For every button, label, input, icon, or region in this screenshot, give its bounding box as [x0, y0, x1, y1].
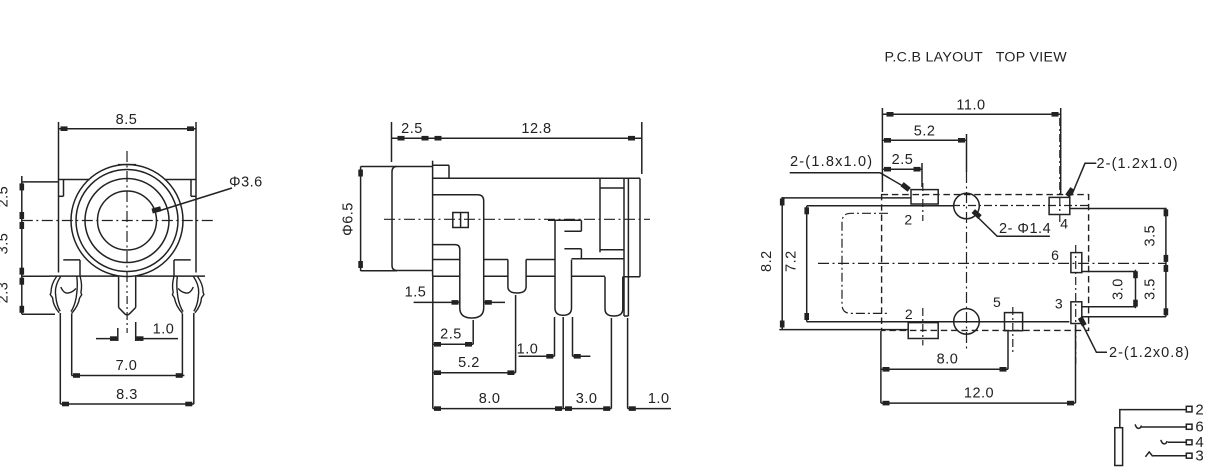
svg-text:2-(1.8x1.0): 2-(1.8x1.0): [790, 154, 873, 170]
dim 3.0 line: [563, 408, 611, 410]
front body left pocket: [63, 259, 80, 261]
pcb dim 2.5 line: [882, 168, 922, 170]
circle top tick: [118, 164, 136, 166]
pcb pin6/3 column centerline: [1075, 245, 1077, 364]
front body top-left notch: [63, 180, 65, 197]
left chain blobs: [20, 183, 25, 190]
pcb right dim ext bottom: [1082, 316, 1166, 318]
svg-text:12.8: 12.8: [521, 121, 551, 137]
svg-text:3: 3: [1195, 448, 1204, 465]
hole circle (dia 3.6): [98, 191, 157, 250]
svg-text:2.5: 2.5: [401, 121, 423, 137]
pin3 switch contact: [554, 220, 556, 308]
base bottom edge segments: [433, 275, 460, 277]
pcb pin2 column centerline: [922, 183, 924, 221]
pcb pad pin2 bottom (1.8x1.0): [908, 323, 938, 339]
dim 1.5 lines: [414, 301, 460, 303]
schematic terminal 6: [1186, 424, 1192, 429]
svg-text:3.5: 3.5: [0, 233, 12, 255]
body right edge (side): [639, 178, 641, 276]
svg-text:4: 4: [1060, 215, 1068, 231]
face circle: [85, 179, 169, 263]
left leg wires: [59, 313, 61, 404]
front body bottom edge: [49, 275, 118, 277]
dim 1.0 pin3 lines: [519, 355, 555, 357]
svg-text:3.5: 3.5: [1143, 278, 1159, 300]
schematic terminal 4: [1186, 440, 1192, 445]
front horizontal centerline: [22, 220, 214, 222]
left chain extension y=314.3: [22, 313, 55, 315]
pcb dashed outline rect: [882, 195, 1089, 331]
base top line segments: [433, 259, 460, 261]
svg-text:1.0: 1.0: [153, 322, 175, 338]
pin4: [604, 277, 606, 309]
schematic terminal 2: [1186, 406, 1192, 412]
svg-text:3: 3: [1055, 295, 1063, 311]
pcb dim 3.0 line: [1135, 270, 1137, 309]
label dia3.6 leader: [157, 188, 232, 212]
pcb dim 2.5 ext: [921, 163, 923, 187]
pcb pad pin3 (1.2x0.8): [1071, 302, 1082, 324]
svg-text:Φ3.6: Φ3.6: [229, 175, 263, 191]
dim 8.0 line (side): [433, 408, 563, 410]
svg-text:2.3: 2.3: [0, 282, 12, 304]
left snap leg fork: [50, 277, 59, 313]
schematic terminal 3: [1186, 453, 1192, 458]
dim 1.0 (front) line: [96, 338, 118, 340]
front view: jack front face: [49, 176, 205, 276]
dim 8.5 extension lines: [58, 122, 60, 176]
svg-text:8.2: 8.2: [759, 250, 775, 272]
dim 2.5 / 12.8 extensions: [391, 122, 393, 162]
pcb dim 8.2 ext lines: [782, 197, 911, 199]
pcb right dim 3.5/3.5 line: [1165, 208, 1167, 317]
dim 5.2 ext: [515, 295, 517, 373]
svg-text:8.0: 8.0: [479, 391, 501, 407]
leader 2-(1.8x1.0): [880, 173, 908, 189]
pcb dim 5.2 ext: [966, 134, 968, 172]
left chain dim line: [21, 176, 23, 314]
svg-text:2: 2: [905, 306, 913, 322]
pcb pad pin4 (1.2x1.0): [1049, 197, 1070, 214]
bottom dim extensions (side): [432, 276, 434, 408]
terminal washer detail: [453, 213, 469, 228]
dim dia6.5 line: [360, 167, 362, 272]
dim 1.0 (front) stubs: [117, 328, 119, 341]
dim 8.5 line: [59, 128, 197, 130]
dim 2.5b ext: [472, 320, 474, 344]
svg-text:5.2: 5.2: [914, 124, 936, 140]
pcb right dim ext top: [1070, 208, 1166, 210]
pcb dim 11.0 ext: [881, 108, 883, 192]
side centerline: [384, 218, 650, 220]
barrel inner rim circle: [76, 170, 178, 272]
pin2 stub: [507, 260, 509, 287]
svg-text:5.2: 5.2: [458, 355, 480, 371]
pcb pad pin2 top (1.8x1.0): [911, 190, 938, 204]
dim 7.0 line: [71, 375, 184, 377]
pcb dim 7.2 ext lines: [807, 205, 954, 207]
svg-text:1.0: 1.0: [648, 391, 670, 407]
top tab: [433, 164, 449, 166]
leader 2-dia1.4: [977, 217, 1050, 237]
svg-text:1.0: 1.0: [517, 341, 539, 357]
schematic wire 6: [1141, 426, 1186, 428]
internal shelf above pin1: [433, 245, 460, 250]
svg-text:3.0: 3.0: [1111, 278, 1127, 300]
body top edge (side): [433, 177, 640, 179]
schematic wire 4: [1168, 441, 1187, 443]
right slot horizontals: [600, 187, 624, 189]
schematic wire 3: [1153, 455, 1186, 457]
left chain extension y=276.2: [22, 275, 49, 277]
svg-text:12.0: 12.0: [964, 386, 994, 402]
center pin front: [118, 276, 120, 307]
svg-text:2.5: 2.5: [440, 327, 462, 343]
pin5 flat switch pin: [623, 179, 625, 316]
svg-text:2.5: 2.5: [892, 152, 914, 168]
pcb dim 11.0 line: [882, 113, 1060, 115]
leader 2-(1.8x1.0) underline: [790, 172, 880, 174]
svg-text:7.0: 7.0: [116, 358, 138, 374]
front vertical centerline: [126, 151, 128, 293]
pcb pin4 centerlines: [1059, 118, 1061, 223]
dim 1.0 right line: [628, 408, 671, 410]
svg-text:P.C.B LAYOUT TOP VIEW: P.C.B LAYOUT TOP VIEW: [885, 49, 1068, 65]
svg-text:3.5: 3.5: [1143, 225, 1159, 247]
pcb dim 8.2 line: [781, 197, 783, 329]
svg-text:2-(1.2x1.0): 2-(1.2x1.0): [1097, 156, 1179, 172]
svg-text:7.2: 7.2: [784, 250, 800, 272]
pcb hole column centerline: [966, 172, 968, 352]
schematic contact squiggle 3: [1145, 452, 1152, 457]
pcb pin5 column centerline: [1012, 307, 1014, 352]
svg-text:1.5: 1.5: [405, 285, 427, 301]
svg-text:8.5: 8.5: [116, 112, 138, 128]
dim 2.5/12.8 line: [392, 137, 642, 139]
pcb pad pin6 (1.2x0.8): [1071, 253, 1082, 273]
dim dia6.5 extensions: [361, 166, 397, 168]
left chain extension y=181.9: [22, 181, 59, 183]
schematic tip wire to terminal 2: [1120, 410, 1187, 428]
svg-text:2-(1.2x0.8): 2-(1.2x0.8): [1109, 345, 1190, 361]
svg-text:2- Φ1.4: 2- Φ1.4: [999, 221, 1051, 237]
svg-text:Φ6.5: Φ6.5: [340, 202, 356, 236]
pcb dim 7.2 line: [806, 206, 808, 322]
pcb body outline dash-dot rounded: [842, 213, 888, 313]
center pin centerline: [126, 296, 128, 333]
leader 2-(1.2x0.8): [1082, 324, 1107, 353]
flange (dia 6.5 bushing): [392, 167, 433, 271]
leader 2-(1.2x1.0): [1072, 163, 1097, 195]
pcb hole bottom (dia 1.4): [954, 309, 980, 335]
dim 8.3 line: [60, 403, 194, 405]
pcb dim 5.2 line: [882, 139, 966, 141]
svg-text:2: 2: [904, 212, 912, 228]
pcb pad pin5 (1.2x1.0): [1005, 313, 1023, 331]
pcb dim 3.0 ext: [1082, 271, 1136, 273]
schematic contact squiggle 4: [1161, 440, 1167, 444]
right slot verticals: [599, 179, 601, 252]
svg-text:2.5: 2.5: [0, 186, 12, 208]
svg-text:6: 6: [1051, 247, 1059, 263]
svg-text:6: 6: [1195, 419, 1204, 436]
svg-text:8.3: 8.3: [116, 387, 138, 403]
schematic sleeve bar: [1115, 428, 1123, 466]
front body top edge: [59, 179, 90, 181]
body internal ledge with fillet: [433, 195, 484, 201]
svg-text:2: 2: [1195, 402, 1204, 419]
dim 2.5b line: [433, 343, 473, 345]
pcb dim 8.0 line: [881, 368, 1008, 370]
svg-text:5: 5: [993, 294, 1001, 310]
right snap leg fork: [172, 277, 204, 314]
front body right pocket: [174, 259, 191, 261]
pcb main horizontal centerline: [818, 262, 1166, 264]
dim 5.2 line: [433, 372, 516, 374]
pin1 (sleeve lug): [459, 250, 461, 309]
svg-text:3.0: 3.0: [576, 391, 598, 407]
schematic contact squiggle 6: [1135, 424, 1141, 428]
svg-text:8.0: 8.0: [937, 352, 959, 368]
outer barrel circle: [71, 165, 183, 277]
svg-text:11.0: 11.0: [956, 98, 985, 114]
dim 1.0 pin3 stubs: [554, 317, 556, 356]
pcb bottom ext lines: [880, 331, 882, 403]
front body left edge: [58, 176, 60, 273]
pcb hole top (dia 1.4): [954, 193, 980, 219]
front body top-right notch: [190, 180, 192, 197]
front body right edge: [195, 176, 197, 273]
pcb dim 12.0 line: [881, 402, 1076, 404]
right leg wires: [193, 313, 195, 404]
